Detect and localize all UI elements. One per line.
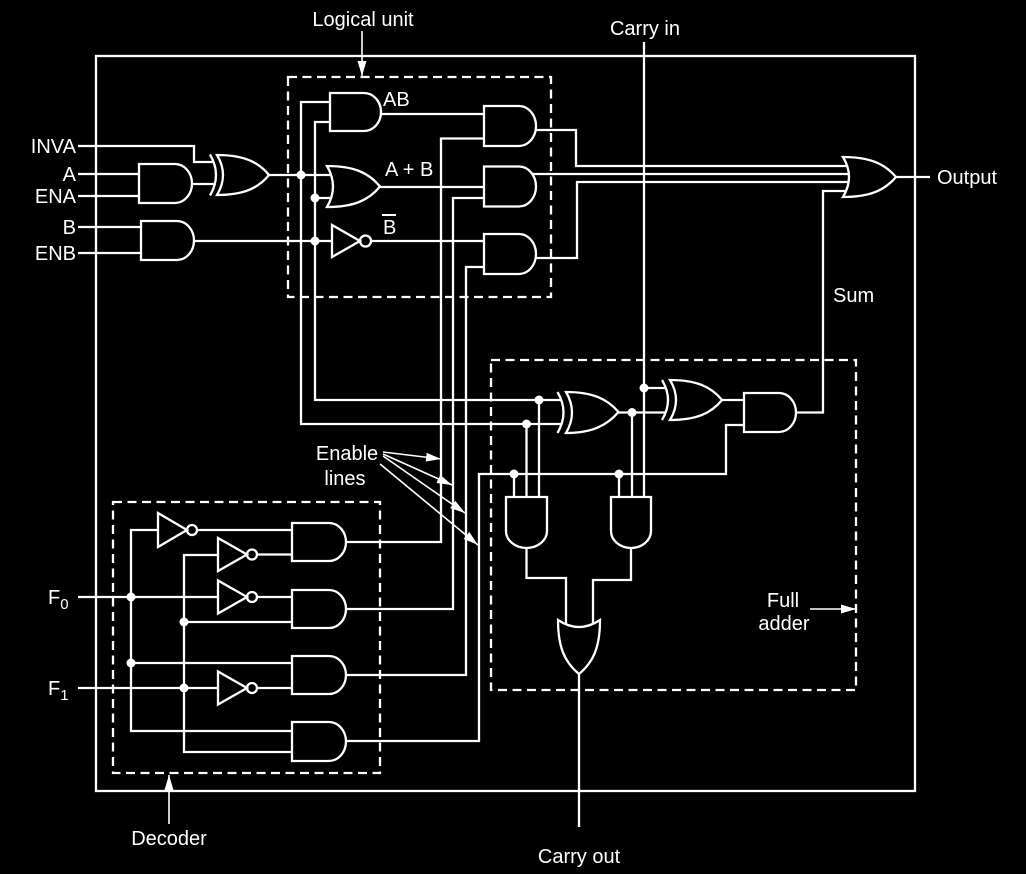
XOR gate FA1 body <box>566 392 619 433</box>
wire B-bar output <box>371 240 484 242</box>
wire XOR1 out to XOR2 <box>618 411 665 413</box>
wire B' branch down to left FA AND <box>538 400 540 497</box>
wire enable line 1 <box>346 139 484 543</box>
OR gate output <box>843 157 896 197</box>
wire inv1 to AND1 <box>197 529 292 531</box>
node B' junction <box>311 237 320 246</box>
node F1 junction <box>180 684 189 693</box>
node F1 upper junction <box>180 618 189 627</box>
svg-text:A: A <box>63 164 77 186</box>
svg-text:B: B <box>63 217 76 239</box>
wire F1 branch to AND2 <box>184 621 292 623</box>
node F0 lower junction <box>127 659 136 668</box>
wire enable branch down to right FA AND <box>618 474 620 497</box>
svg-text:Decoder: Decoder <box>131 828 207 850</box>
NOT gate decoder inv2 bubble <box>247 550 257 560</box>
AND gate FA carry right <box>611 497 651 548</box>
svg-text:Enable: Enable <box>316 443 378 465</box>
svg-text:ENA: ENA <box>35 186 77 208</box>
wire F1 input <box>78 687 218 689</box>
AND gate decoder 3 <box>292 656 346 694</box>
NOT gate B-bar triangle <box>332 225 360 257</box>
svg-text:B: B <box>383 217 396 239</box>
AND gate sum-enable <box>744 393 796 432</box>
svg-text:adder: adder <box>758 613 809 635</box>
node enable right junction <box>615 470 624 479</box>
wire sum up to output OR <box>796 191 846 413</box>
NOT gate decoder inv2 triangle <box>218 538 247 571</box>
node carry in junction <box>640 384 649 393</box>
wire enable line 3 <box>346 267 484 675</box>
wire ENB input <box>78 252 141 254</box>
wire enable branch down to left FA AND <box>513 474 515 497</box>
NOT gate decoder inv4 triangle <box>218 672 247 705</box>
wire enable-Bbar gate to output OR <box>535 182 849 258</box>
wire B' down to full adder <box>315 241 561 400</box>
wire carry out vertical <box>578 674 580 827</box>
svg-text:Carry in: Carry in <box>610 18 680 40</box>
AND gate enable-AB <box>484 106 536 146</box>
svg-text:ENB: ENB <box>35 243 76 265</box>
wire inv4 to AND3 <box>257 687 292 689</box>
wire A·ENA to XOR <box>192 183 214 185</box>
svg-text:INVA: INVA <box>31 136 77 158</box>
Logical unit dashed box <box>288 77 551 297</box>
svg-text:Output: Output <box>937 167 997 189</box>
wire F0 branch to AND3 <box>131 662 292 664</box>
arrow enable line 1 pointer <box>383 452 441 459</box>
svg-text:Logical unit: Logical unit <box>312 9 414 31</box>
arrow enable line 2 pointer <box>383 454 452 485</box>
wire enable-AB gate to output OR <box>535 130 847 166</box>
svg-text:AB: AB <box>383 89 410 111</box>
svg-text:Sum: Sum <box>833 285 874 307</box>
arrow enable line 3 pointer <box>383 456 465 513</box>
svg-text:Full: Full <box>767 590 799 612</box>
wire F0 vertical middle <box>130 597 132 663</box>
AND gate enable-A+B <box>484 167 536 207</box>
wire enable line 2 <box>346 198 484 609</box>
wire right FA AND to carry OR <box>593 548 631 624</box>
svg-text:Carry out: Carry out <box>538 846 621 868</box>
wire ENA input <box>78 195 139 197</box>
OR gate A+B <box>327 166 380 207</box>
AND gate AB <box>330 93 381 131</box>
node enable left junction <box>510 470 519 479</box>
wire INVA input <box>78 146 213 162</box>
AND gate decoder 4 <box>292 722 346 761</box>
svg-text:A + B: A + B <box>385 159 433 181</box>
wire F1 vertical middle <box>183 622 185 688</box>
OR gate carry out <box>558 620 600 674</box>
wire F1 vertical to AND4 <box>184 688 292 752</box>
arrow decoder pointer <box>168 775 170 824</box>
arrow full adder pointer <box>810 608 856 610</box>
label B-bar overline <box>382 214 396 216</box>
wire F0 input <box>78 596 218 598</box>
XOR gate FA2 leading arc <box>662 380 668 420</box>
wire decoder add-enable line <box>346 425 744 741</box>
wire B' branch to OR gate lower input <box>315 197 332 199</box>
Full adder dashed box <box>491 360 856 690</box>
wire enable-A+B gate to output OR <box>532 173 849 175</box>
outer ALU box <box>96 56 915 791</box>
wire inv2 to AND1 <box>257 553 292 555</box>
wire B input <box>78 226 141 228</box>
NOT gate decoder inv3 bubble <box>247 592 257 602</box>
NOT gate decoder inv1 triangle <box>158 513 187 547</box>
wire A' up to AB gate and down to full adder <box>301 102 561 424</box>
node XOR1 out junction <box>628 408 637 417</box>
AND gate enable-Bbar <box>484 234 536 274</box>
wire F0 vertical to AND4 <box>131 663 292 731</box>
wire F0 vertical to inverter1 <box>131 530 158 597</box>
XOR gate FA2 body <box>670 380 722 420</box>
node A' FA junction <box>522 420 531 429</box>
node F0 junction <box>127 593 136 602</box>
wire A' branch down to left FA AND <box>525 424 527 497</box>
NOT gate decoder inv1 bubble <box>187 525 197 535</box>
AND gate B·ENB <box>141 221 194 260</box>
AND gate decoder 1 <box>292 523 346 561</box>
node A' junction <box>297 171 306 180</box>
XOR gate FA1 leading arc <box>558 392 564 433</box>
svg-text:lines: lines <box>324 468 365 490</box>
wire XOR1 branch down to right FA AND <box>631 413 633 498</box>
wire left FA AND to carry OR <box>527 548 567 624</box>
wire carry in branch to XOR2 <box>644 387 665 389</box>
XOR gate input stage leading arc <box>210 155 216 196</box>
NOT gate decoder inv4 bubble <box>247 683 257 693</box>
AND gate decoder 2 <box>292 590 346 628</box>
node B' to OR junction <box>311 194 320 203</box>
wire carry in vertical <box>643 42 645 497</box>
wire B' branch up to AB gate <box>315 122 330 241</box>
wire XOR2 out to sum AND <box>722 399 744 401</box>
XOR gate input stage body <box>217 155 269 195</box>
NOT gate decoder inv3 triangle <box>218 581 247 614</box>
wire F1 vertical to inverter2 <box>184 555 218 622</box>
AND gate A·ENA <box>139 164 192 203</box>
wire AB output <box>381 113 484 115</box>
wire output <box>896 176 930 178</box>
wire A input <box>78 173 139 175</box>
wire A' line to OR gate <box>269 174 332 176</box>
wire inv3 to AND2 <box>257 596 292 598</box>
wire A+B output <box>380 186 484 188</box>
arrow enable line 4 pointer <box>380 464 478 545</box>
AND gate FA carry left <box>506 497 547 548</box>
wire B' line to NOT gate <box>194 240 332 242</box>
node B' FA junction <box>535 396 544 405</box>
NOT gate B-bar bubble <box>360 236 371 247</box>
Decoder dashed box <box>113 502 380 773</box>
arrow logical unit pointer <box>361 31 363 76</box>
